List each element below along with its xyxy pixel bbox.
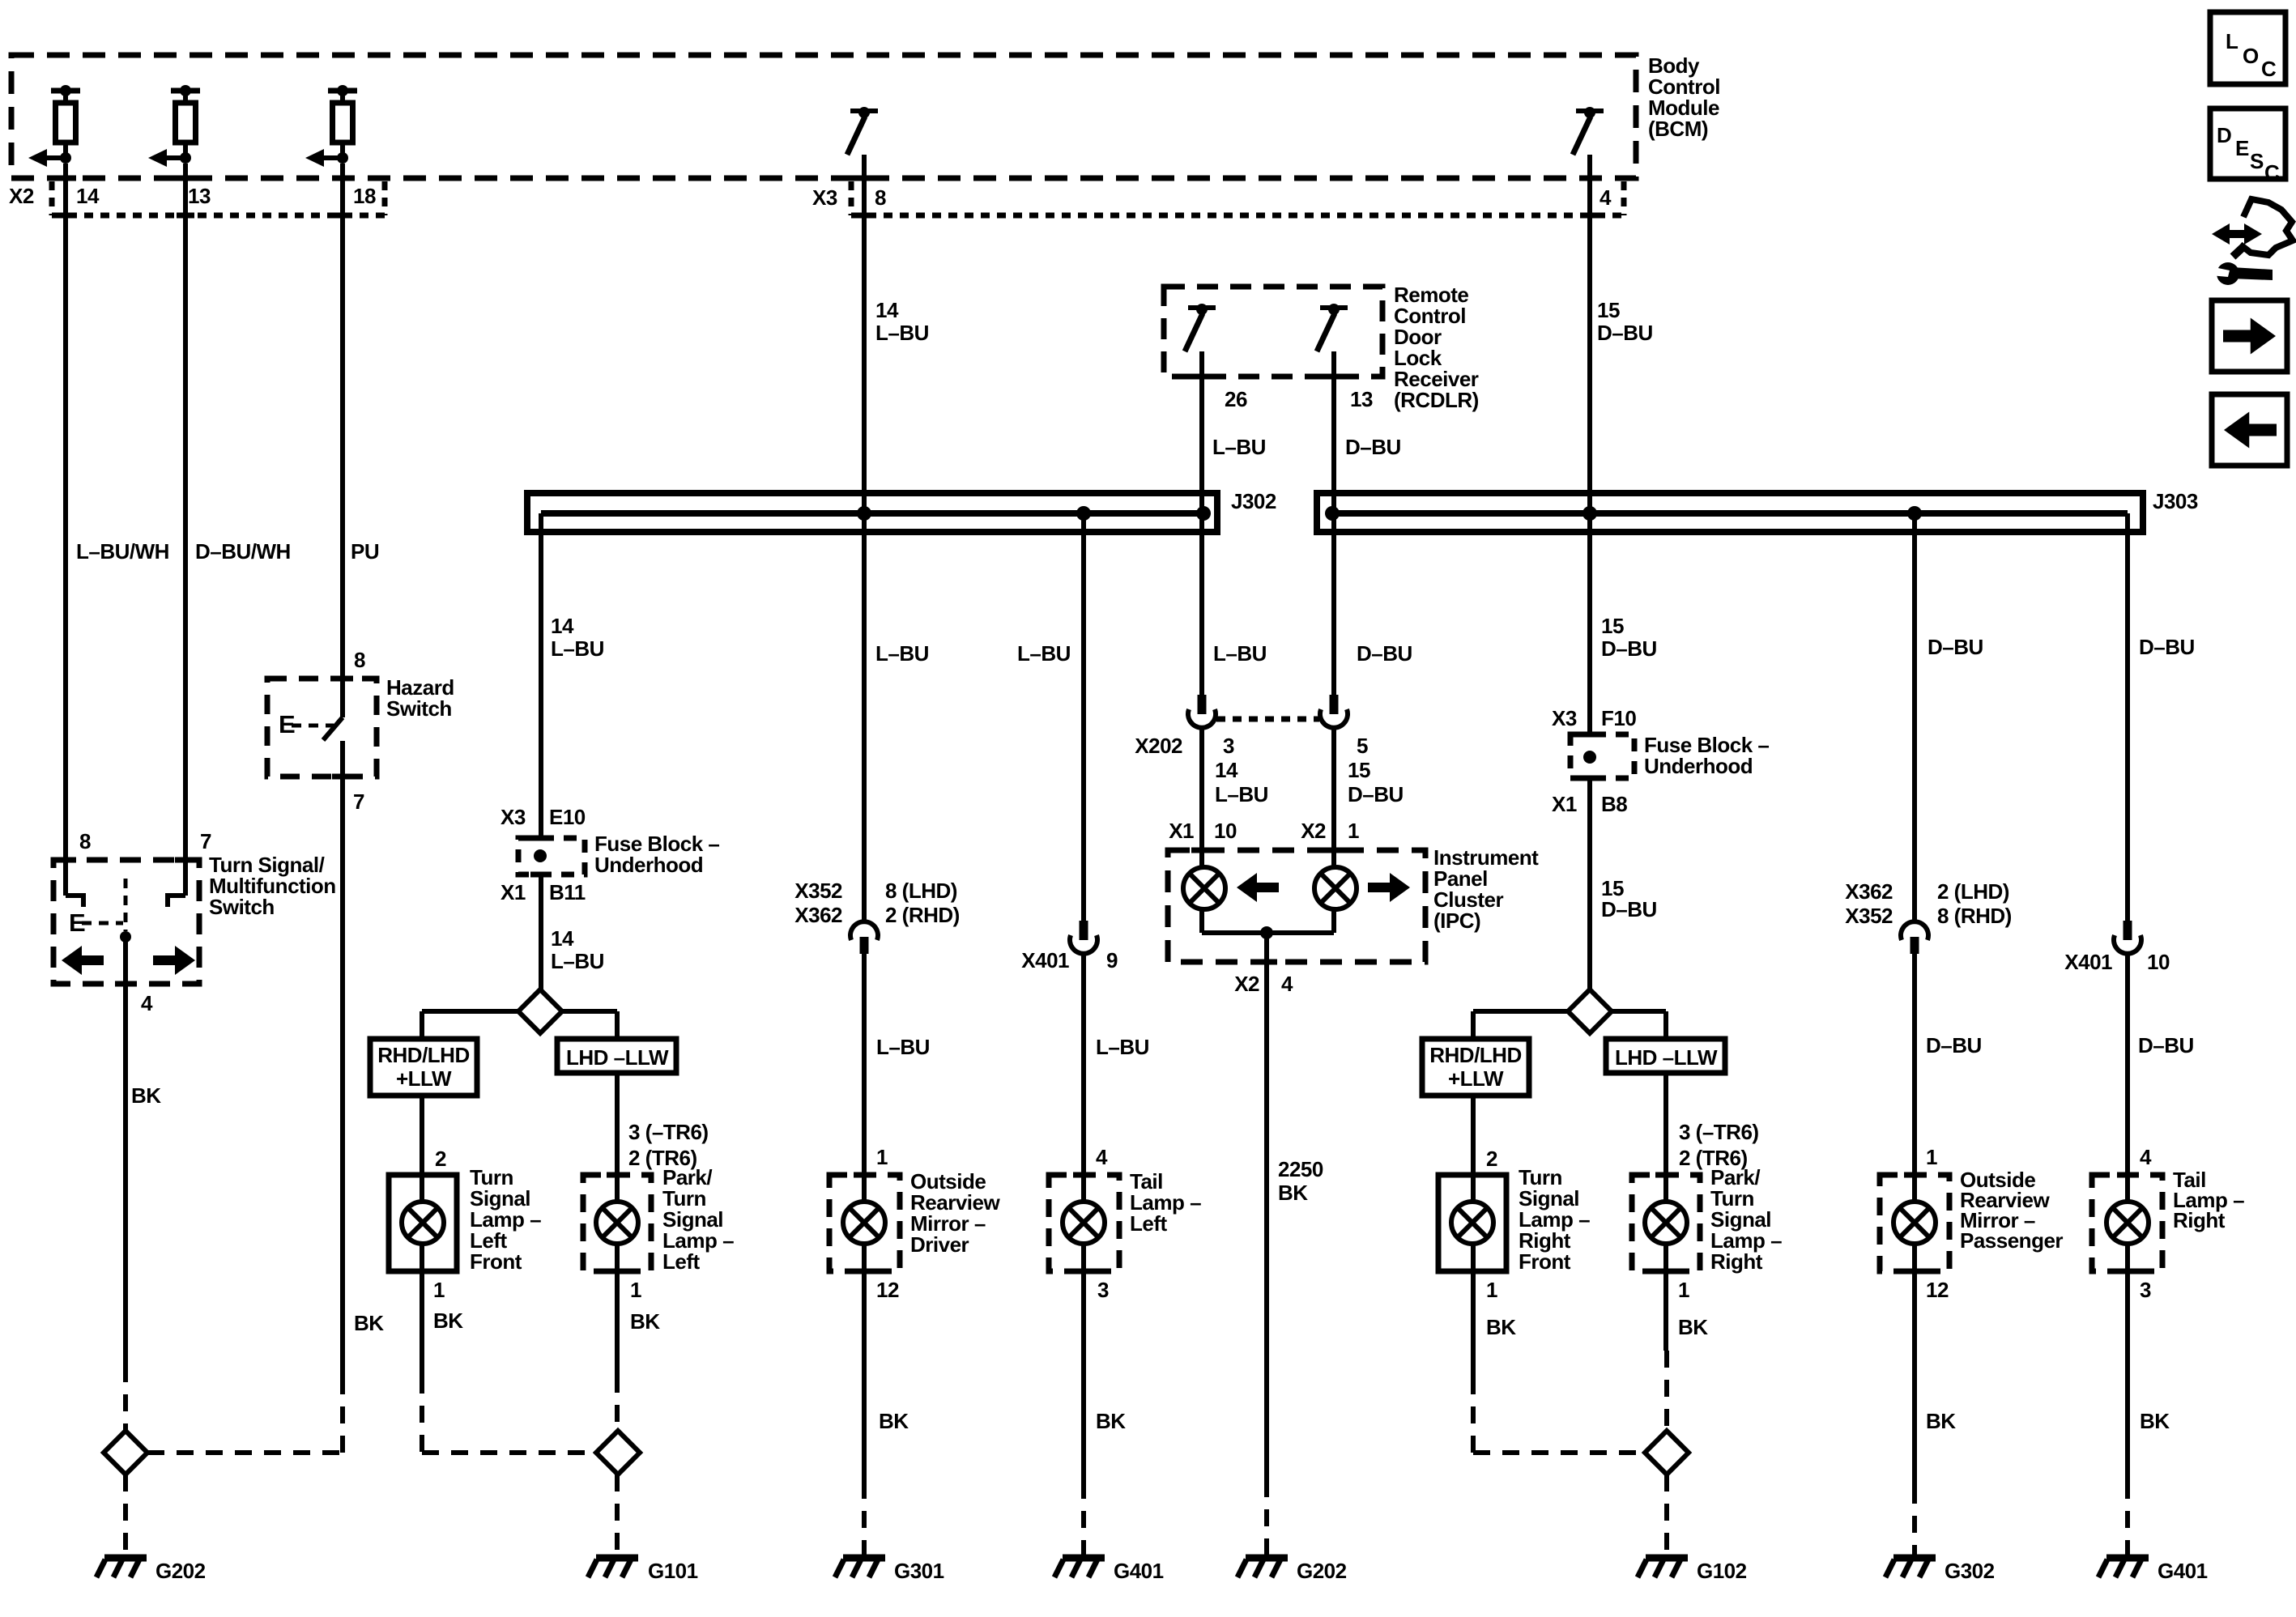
svg-text:BK: BK [1926,1409,1956,1433]
svg-text:2250: 2250 [1278,1157,1323,1181]
svg-text:PU: PU [351,539,379,564]
svg-text:G202: G202 [155,1559,206,1583]
svg-text:3 (–TR6): 3 (–TR6) [628,1120,709,1144]
svg-text:X3: X3 [1552,706,1577,730]
svg-text:E10: E10 [549,805,586,829]
svg-text:BK: BK [1096,1409,1126,1433]
svg-text:D–BU: D–BU [1348,782,1404,806]
svg-text:1: 1 [1348,819,1359,843]
svg-text:14: 14 [551,614,574,638]
svg-text:BK: BK [2140,1409,2170,1433]
svg-text:D–BU: D–BU [2139,635,2195,659]
svg-text:X1: X1 [501,880,526,904]
svg-text:X202: X202 [1135,734,1182,758]
svg-text:X2: X2 [1234,972,1259,996]
svg-text:G302: G302 [1945,1559,1995,1583]
svg-text:4: 4 [1281,972,1293,996]
svg-text:Switch: Switch [209,895,275,919]
svg-text:BK: BK [131,1083,161,1108]
svg-text:B11: B11 [549,880,586,904]
svg-text:G401: G401 [1114,1559,1164,1583]
svg-text:L–BU/WH: L–BU/WH [76,539,169,564]
svg-text:1: 1 [630,1278,641,1302]
svg-text:D: D [2217,123,2231,147]
svg-text:4: 4 [1600,185,1612,210]
svg-text:+LLW: +LLW [396,1066,452,1091]
svg-text:14: 14 [76,184,100,208]
svg-text:G101: G101 [648,1559,698,1583]
svg-text:D–BU: D–BU [1926,1033,1982,1057]
svg-text:X362: X362 [794,903,842,927]
svg-text:1: 1 [1678,1278,1689,1302]
svg-text:D–BU: D–BU [1345,435,1401,459]
svg-text:14: 14 [551,926,574,951]
svg-text:Right: Right [1710,1249,1763,1274]
svg-text:18: 18 [353,184,376,208]
svg-text:10: 10 [1214,819,1237,843]
svg-text:1: 1 [876,1145,888,1169]
svg-text:12: 12 [876,1278,899,1302]
svg-text:8 (RHD): 8 (RHD) [1937,904,2012,928]
svg-text:15: 15 [1597,298,1620,322]
svg-text:X352: X352 [794,879,842,903]
svg-text:L–BU: L–BU [1212,435,1266,459]
svg-text:BK: BK [1678,1315,1708,1339]
svg-text:Underhood: Underhood [594,853,703,877]
svg-text:G401: G401 [2158,1559,2208,1583]
svg-text:L: L [2226,29,2238,53]
svg-text:RHD/LHD: RHD/LHD [377,1043,470,1067]
svg-text:BK: BK [354,1311,384,1335]
svg-text:15: 15 [1601,614,1624,638]
svg-text:Front: Front [1519,1249,1571,1274]
svg-text:X362: X362 [1845,879,1893,904]
svg-text:3 (–TR6): 3 (–TR6) [1679,1120,1759,1144]
svg-text:Driver: Driver [910,1232,969,1257]
svg-text:2: 2 [435,1147,446,1171]
svg-text:Front: Front [470,1249,522,1274]
svg-text:RHD/LHD: RHD/LHD [1429,1043,1522,1067]
svg-text:2 (LHD): 2 (LHD) [1937,879,2009,904]
svg-text:C: C [2261,57,2277,81]
svg-text:1: 1 [1926,1145,1937,1169]
svg-text:X401: X401 [1021,948,1069,972]
svg-text:8 (LHD): 8 (LHD) [885,879,957,903]
svg-text:(RCDLR): (RCDLR) [1394,388,1479,412]
svg-text:L–BU: L–BU [551,636,604,661]
svg-text:LHD –LLW: LHD –LLW [566,1045,669,1070]
svg-text:L–BU: L–BU [551,949,604,973]
svg-text:(BCM): (BCM) [1648,117,1708,141]
svg-text:BK: BK [1278,1181,1308,1205]
svg-text:X2: X2 [9,184,34,208]
svg-text:G202: G202 [1297,1559,1347,1583]
svg-text:G301: G301 [894,1559,944,1583]
svg-text:26: 26 [1225,387,1247,411]
svg-text:L–BU: L–BU [1096,1035,1149,1059]
svg-text:G102: G102 [1697,1559,1747,1583]
svg-text:13: 13 [1350,387,1373,411]
svg-text:D–BU: D–BU [1597,321,1653,345]
svg-text:E: E [2235,136,2249,160]
svg-text:8: 8 [79,829,91,853]
svg-text:Left: Left [662,1249,701,1274]
svg-text:J303: J303 [2153,489,2198,513]
svg-text:(IPC): (IPC) [1433,908,1480,933]
svg-text:+LLW: +LLW [1448,1066,1504,1091]
svg-text:7: 7 [200,829,211,853]
svg-text:X1: X1 [1169,819,1194,843]
svg-text:J302: J302 [1231,489,1276,513]
svg-text:X3: X3 [812,185,837,210]
svg-text:BK: BK [1486,1315,1516,1339]
svg-text:14: 14 [1215,758,1238,782]
svg-text:7: 7 [353,789,364,814]
svg-text:14: 14 [875,298,899,322]
svg-text:D–BU/WH: D–BU/WH [195,539,291,564]
svg-text:2: 2 [1486,1147,1497,1171]
svg-text:LHD –LLW: LHD –LLW [1615,1045,1718,1070]
svg-text:E: E [69,908,85,937]
svg-text:9: 9 [1106,948,1118,972]
svg-text:B8: B8 [1601,792,1627,816]
svg-text:1: 1 [1486,1278,1497,1302]
svg-text:Switch: Switch [386,696,452,721]
svg-text:5: 5 [1357,734,1368,758]
svg-text:8: 8 [875,185,886,210]
svg-text:S: S [2250,149,2264,173]
svg-text:D–BU: D–BU [1928,635,1983,659]
svg-text:X401: X401 [2064,950,2112,974]
svg-text:E: E [279,710,295,738]
svg-text:3: 3 [2140,1278,2151,1302]
svg-text:BK: BK [879,1409,909,1433]
svg-text:3: 3 [1223,734,1234,758]
svg-text:O: O [2243,44,2259,68]
svg-text:L–BU: L–BU [875,321,929,345]
svg-text:4: 4 [141,991,153,1015]
svg-text:13: 13 [188,184,211,208]
svg-text:D–BU: D–BU [1357,641,1412,666]
svg-text:4: 4 [1096,1145,1108,1169]
svg-text:L–BU: L–BU [876,1035,930,1059]
svg-text:BK: BK [433,1308,463,1333]
svg-text:F10: F10 [1601,706,1636,730]
svg-text:X352: X352 [1845,904,1893,928]
svg-text:D–BU: D–BU [2138,1033,2194,1057]
svg-text:15: 15 [1348,758,1370,782]
svg-text:X1: X1 [1552,792,1577,816]
svg-text:D–BU: D–BU [1601,636,1657,661]
svg-text:D–BU: D–BU [1601,897,1657,921]
svg-text:L–BU: L–BU [1213,641,1267,666]
svg-text:X3: X3 [501,805,526,829]
svg-text:Underhood: Underhood [1644,754,1753,778]
svg-text:L–BU: L–BU [1017,641,1071,666]
svg-text:C: C [2264,160,2280,185]
svg-text:BK: BK [630,1309,660,1334]
svg-text:2 (RHD): 2 (RHD) [885,903,960,927]
svg-text:Left: Left [1130,1211,1168,1236]
svg-text:10: 10 [2147,950,2170,974]
svg-text:L–BU: L–BU [875,641,929,666]
svg-text:Passenger: Passenger [1960,1228,2063,1253]
svg-text:1: 1 [433,1278,445,1302]
svg-text:X2: X2 [1301,819,1326,843]
svg-text:3: 3 [1097,1278,1109,1302]
svg-text:Right: Right [2173,1208,2226,1232]
svg-text:8: 8 [354,648,365,672]
svg-text:L–BU: L–BU [1215,782,1268,806]
svg-text:4: 4 [2140,1145,2152,1169]
svg-text:12: 12 [1926,1278,1949,1302]
